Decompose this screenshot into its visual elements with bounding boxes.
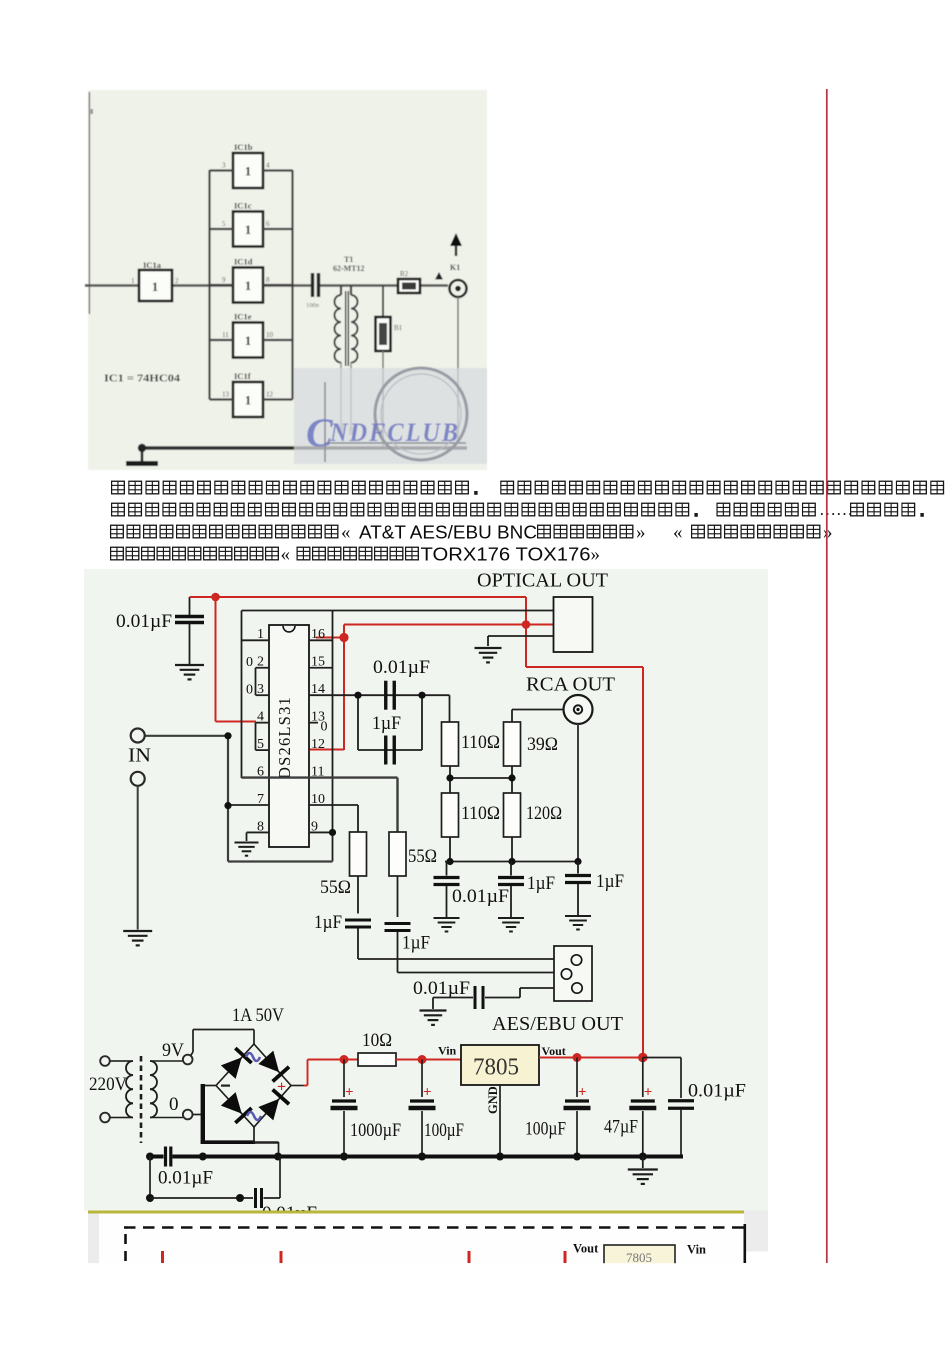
svg-text:NDFCLUB: NDFCLUB	[329, 418, 460, 447]
svg-text:5: 5	[222, 220, 226, 228]
svg-text:1µF: 1µF	[596, 871, 624, 892]
svg-text:IC1f: IC1f	[234, 371, 251, 381]
svg-text:AES/EBU OUT: AES/EBU OUT	[492, 1013, 623, 1035]
svg-text:10: 10	[266, 331, 274, 339]
svg-text:«: «	[341, 522, 351, 543]
svg-text:0: 0	[246, 683, 253, 698]
svg-text:B1: B1	[394, 324, 403, 332]
svg-text:Vout: Vout	[573, 1242, 599, 1256]
svg-text:1µF: 1µF	[314, 912, 342, 933]
svg-text:1µF: 1µF	[402, 933, 430, 954]
svg-text:0: 0	[321, 720, 328, 735]
svg-text:GND: GND	[486, 1086, 500, 1114]
svg-text:1: 1	[152, 279, 159, 294]
svg-text:1µF: 1µF	[372, 713, 401, 734]
svg-text:Vout: Vout	[542, 1044, 566, 1058]
svg-text:6: 6	[266, 220, 270, 228]
svg-text:100n: 100n	[306, 302, 320, 309]
svg-text:62-MT12: 62-MT12	[333, 264, 365, 273]
svg-text:10Ω: 10Ω	[362, 1030, 392, 1051]
svg-text:IC1e: IC1e	[234, 312, 252, 322]
svg-text:9: 9	[222, 276, 226, 284]
svg-text:39Ω: 39Ω	[527, 734, 558, 755]
svg-text:220V: 220V	[89, 1074, 127, 1095]
svg-text:0: 0	[246, 655, 253, 670]
svg-text:100µF: 100µF	[424, 1120, 464, 1141]
svg-text:RCA OUT: RCA OUT	[526, 674, 615, 696]
svg-text:9V: 9V	[162, 1040, 184, 1061]
svg-text:AT&T AES/EBU BNC: AT&T AES/EBU BNC	[359, 522, 537, 542]
svg-text:0.01µF: 0.01µF	[158, 1168, 213, 1189]
svg-text:120Ω: 120Ω	[526, 803, 562, 824]
svg-text:13: 13	[222, 391, 230, 399]
svg-text:IC1a: IC1a	[143, 260, 162, 270]
svg-text:2: 2	[175, 277, 179, 285]
svg-text:7805: 7805	[626, 1250, 652, 1265]
svg-text:R2: R2	[400, 270, 409, 278]
svg-text:1A 50V: 1A 50V	[232, 1005, 284, 1026]
svg-text:0.01µF: 0.01µF	[452, 886, 509, 907]
svg-text:1µF: 1µF	[527, 873, 555, 894]
svg-text:+: +	[644, 1085, 653, 1101]
svg-text:OPTICAL OUT: OPTICAL OUT	[477, 570, 608, 592]
svg-text:TORX176 TOX176: TORX176 TOX176	[421, 544, 591, 564]
svg-text:0.01µF: 0.01µF	[688, 1081, 746, 1102]
svg-text:0.01µF: 0.01µF	[373, 657, 430, 678]
svg-text:1: 1	[131, 277, 135, 285]
svg-text:»: »	[636, 522, 646, 543]
svg-text:+: +	[423, 1085, 432, 1101]
svg-text:1000µF: 1000µF	[350, 1120, 401, 1141]
svg-text:55Ω: 55Ω	[408, 846, 437, 867]
svg-text:»: »	[823, 522, 833, 543]
svg-text:+: +	[578, 1085, 587, 1101]
svg-text:1: 1	[245, 222, 252, 237]
svg-text:12: 12	[311, 737, 325, 752]
svg-text:55Ω: 55Ω	[320, 877, 351, 898]
svg-text:0.01µF: 0.01µF	[116, 611, 172, 632]
svg-text:IC1c: IC1c	[234, 201, 252, 211]
svg-text:110Ω: 110Ω	[461, 803, 500, 824]
svg-text:»: »	[591, 544, 601, 565]
svg-text:IC1b: IC1b	[234, 142, 253, 152]
svg-text:8: 8	[266, 276, 270, 284]
svg-text:1: 1	[245, 333, 252, 348]
svg-text:«: «	[673, 522, 683, 543]
svg-text:110Ω: 110Ω	[461, 732, 500, 753]
svg-text:……: ……	[819, 500, 853, 519]
svg-text:0.01µF: 0.01µF	[413, 978, 470, 999]
svg-text:+: +	[277, 1079, 286, 1096]
svg-text:4: 4	[266, 162, 270, 170]
svg-text:7805: 7805	[473, 1055, 519, 1081]
svg-text:+: +	[345, 1085, 354, 1101]
svg-text:3: 3	[222, 162, 226, 170]
svg-text:11: 11	[222, 331, 229, 339]
svg-text:IN: IN	[128, 745, 151, 767]
svg-text:Vin: Vin	[438, 1044, 457, 1058]
svg-text:0: 0	[169, 1094, 179, 1115]
svg-text:«: «	[281, 544, 291, 565]
svg-text:K1: K1	[450, 263, 460, 272]
svg-text:IC1d: IC1d	[234, 257, 253, 267]
svg-text:47µF: 47µF	[604, 1117, 638, 1138]
svg-text:1: 1	[245, 278, 252, 293]
svg-text:1: 1	[245, 393, 252, 408]
svg-text:DS26LS31: DS26LS31	[275, 696, 294, 779]
svg-text:IC1 = 74HC04: IC1 = 74HC04	[104, 374, 181, 385]
svg-text:1: 1	[245, 164, 252, 179]
svg-text:Vin: Vin	[687, 1243, 706, 1257]
svg-text:100µF: 100µF	[525, 1119, 566, 1140]
svg-text:12: 12	[266, 391, 274, 399]
svg-text:T1: T1	[344, 255, 353, 264]
